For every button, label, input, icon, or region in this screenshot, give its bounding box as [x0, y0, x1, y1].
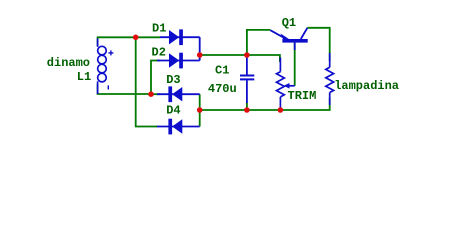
trimmer wiper arrow	[284, 83, 295, 89]
wire: left bridge rail x=151 (D2 anode to D3 cathode)	[151, 61, 160, 95]
junction dot: DC- tap on right rail	[197, 107, 203, 113]
diode D2	[157, 53, 200, 69]
polarity mark + of L1	[108, 50, 113, 55]
diode D3 (pointing left)	[157, 86, 200, 102]
wire: collector net to lamp top	[307, 28, 329, 61]
svg-text:D2: D2	[152, 46, 166, 60]
diode D4 (pointing left)	[157, 119, 200, 135]
svg-text:TRIM: TRIM	[288, 89, 317, 103]
capacitor C1	[240, 56, 254, 103]
resistor lampadina	[326, 53, 334, 105]
svg-text:C1: C1	[215, 64, 229, 78]
wire: L1 bottom to left bridge rail	[98, 84, 151, 94]
junction dot: C1 top	[244, 52, 250, 58]
svg-text:D1: D1	[152, 21, 166, 35]
wire: right bridge rail bottom (D3/D4 anodes)	[199, 94, 201, 126]
junction dot: C1 bottom	[244, 107, 250, 113]
svg-text:Q1: Q1	[282, 16, 296, 30]
transistor Q1	[270, 28, 307, 50]
wire: right bridge rail top (D1/D2 cathodes)	[199, 37, 201, 60]
wire: DC- bottom net to lamp	[200, 98, 330, 110]
wire: C1 bottom lead lower part	[246, 102, 248, 110]
trimmer TRIM	[277, 58, 285, 108]
wire: DC+ net from bridge to TRIM top	[200, 55, 280, 62]
junction dot: DC+ tap on right rail	[197, 52, 203, 58]
inductor L1 (dinamo coil)	[98, 39, 107, 95]
wire: D3 cathode stub	[151, 93, 160, 95]
svg-text:D4: D4	[166, 104, 180, 118]
diode D1	[160, 29, 200, 45]
svg-text:D3: D3	[166, 73, 180, 87]
junction dot: TRIM bottom	[278, 107, 284, 113]
polarity mark - of L1	[107, 85, 109, 89]
svg-text:L1: L1	[77, 70, 91, 84]
junction dot: top wire / left drop rail	[133, 35, 139, 41]
wire: base net down to TRIM wiper	[294, 43, 296, 86]
svg-text:470u: 470u	[208, 82, 237, 96]
wire: C1 top riser to emitter wire	[247, 30, 270, 55]
svg-text:lampadina: lampadina	[334, 79, 399, 93]
junction dot: L1 bottom / left rail / D3	[148, 91, 154, 97]
wire: top net from L1 top to D1 anode	[98, 37, 160, 46]
wire: left drop rail x=135.7 from top wire down to D4 row	[136, 37, 158, 126]
svg-text:dinamo: dinamo	[47, 56, 90, 70]
